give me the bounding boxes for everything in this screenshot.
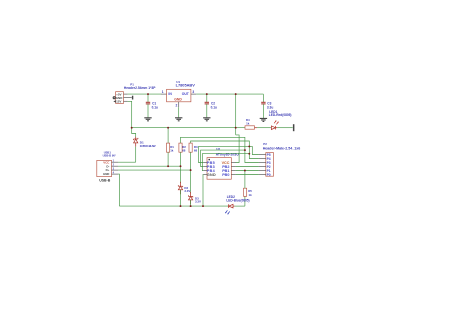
svg-text:68: 68 xyxy=(182,148,186,152)
svg-text:GND: GND xyxy=(103,172,109,176)
svg-text:3.3V: 3.3V xyxy=(184,189,190,193)
svg-text:LED-Blue(0805): LED-Blue(0805) xyxy=(226,198,249,202)
svg-text:1: 1 xyxy=(162,90,164,94)
svg-text:U2: U2 xyxy=(216,147,220,151)
svg-text:P2: P2 xyxy=(263,142,267,146)
svg-text:68: 68 xyxy=(194,148,198,152)
svg-text:2: 2 xyxy=(176,103,178,107)
svg-text:ATtiny85-20SU: ATtiny85-20SU xyxy=(216,152,240,156)
svg-text:LED-Red(0805): LED-Red(0805) xyxy=(269,113,292,117)
svg-text:1k: 1k xyxy=(249,193,253,197)
svg-text:1k: 1k xyxy=(170,148,174,152)
svg-text:USB-B: USB-B xyxy=(99,178,111,182)
svg-text:0.1u: 0.1u xyxy=(152,105,158,109)
svg-text:1N5819HW: 1N5819HW xyxy=(140,144,156,148)
svg-text:L7805ABV: L7805ABV xyxy=(176,83,196,88)
svg-text:P0: P0 xyxy=(267,173,271,177)
svg-text:PB0: PB0 xyxy=(222,173,229,177)
svg-text:GND: GND xyxy=(174,98,182,102)
svg-text:3.3V: 3.3V xyxy=(195,200,201,204)
svg-text:3: 3 xyxy=(192,90,194,94)
svg-text:12V: 12V xyxy=(116,100,121,104)
svg-text:0.1u: 0.1u xyxy=(211,105,217,109)
svg-text:GND: GND xyxy=(207,173,216,177)
svg-text:OUT: OUT xyxy=(182,92,190,96)
svg-text:USB-B 90°: USB-B 90° xyxy=(103,153,116,157)
svg-text:1k: 1k xyxy=(246,121,250,125)
svg-text:Header-Male-2.54_1x6: Header-Male-2.54_1x6 xyxy=(263,147,301,151)
svg-text:Header2.54mm 1*3P: Header2.54mm 1*3P xyxy=(124,86,156,90)
svg-text:IN: IN xyxy=(168,92,172,96)
svg-text:3.3u: 3.3u xyxy=(267,105,273,109)
